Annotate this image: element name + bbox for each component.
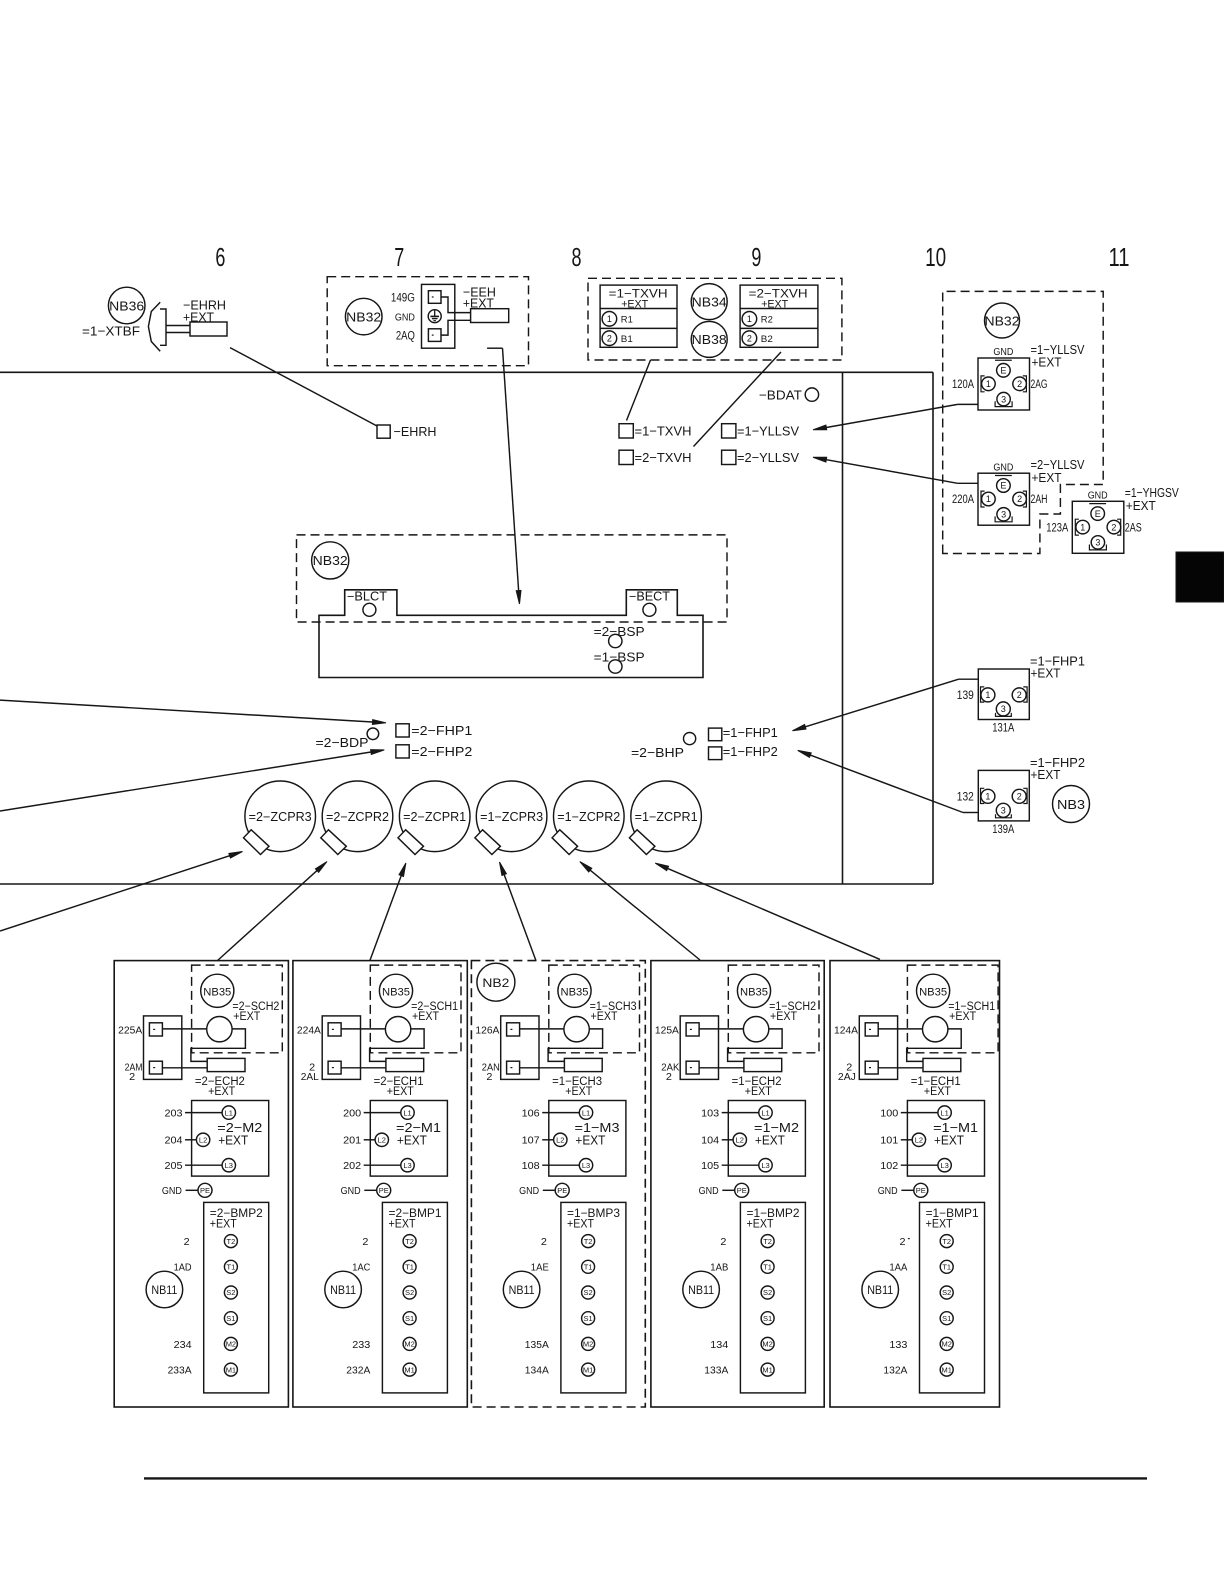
svg-text:+EXT: +EXT (208, 1086, 235, 1098)
pin T2 =2-BMP1 (403, 1235, 416, 1248)
motor box =1-M3 (549, 1101, 626, 1177)
connector 123A =1-YHGSV (1046, 485, 1179, 553)
compressor =2-ZCPR3 (244, 781, 316, 855)
svg-text:S2: S2 (226, 1288, 235, 1297)
wire GND to PE (341, 1183, 391, 1197)
svg-text:T1: T1 (584, 1263, 593, 1272)
svg-text:=1−TXVH: =1−TXVH (635, 423, 692, 438)
svg-text:GND: GND (699, 1186, 719, 1197)
sensor =2-BSP (594, 624, 645, 648)
svg-text:134A: 134A (525, 1366, 549, 1377)
terminal block 124A (859, 1016, 897, 1080)
svg-text:204: 204 (165, 1136, 183, 1147)
svg-text:1: 1 (747, 314, 752, 324)
svg-text:L2: L2 (556, 1136, 564, 1145)
svg-text:+EXT: +EXT (567, 1219, 594, 1231)
svg-text:E: E (1000, 481, 1006, 491)
wire feeder to coil (699, 1028, 743, 1030)
svg-text:=1−YLLSV: =1−YLLSV (737, 423, 799, 438)
wire 202 to L3 (343, 1161, 401, 1172)
wire -EHRH leader (230, 348, 377, 426)
label =1-SCH2 +EXT (769, 1001, 816, 1023)
motor box =2-M2 (192, 1101, 269, 1177)
wire feeder to ECH (878, 1067, 923, 1069)
dashed enclosure NB35 =1-SCH1 (907, 965, 998, 1053)
svg-text:1: 1 (985, 690, 990, 700)
svg-text:149G: 149G (391, 293, 415, 305)
svg-text:M2: M2 (762, 1340, 772, 1349)
svg-text:3: 3 (1001, 394, 1006, 404)
grid column number 9 (751, 244, 761, 272)
wire TXVH1 leader (627, 360, 651, 421)
svg-text:T2: T2 (227, 1237, 236, 1246)
svg-text:L1: L1 (940, 1108, 948, 1117)
terminal block 126A (501, 1016, 539, 1080)
heater terminal =1-ECH3 (564, 1058, 602, 1071)
svg-text:2: 2 (362, 1237, 368, 1248)
svg-text:224A: 224A (297, 1026, 321, 1037)
label =1-SCH1 +EXT (948, 1001, 995, 1023)
sensor -BLCT (347, 590, 387, 617)
svg-text:GND: GND (341, 1186, 361, 1197)
dashed enclosure NB32 col7 (327, 277, 528, 366)
sensor =2-BDP (316, 728, 379, 750)
svg-text:T1: T1 (942, 1263, 951, 1272)
wire feeder to coil (341, 1028, 385, 1030)
node NB32 col7 (345, 298, 382, 335)
node NB35 =2-SCH1 (379, 974, 412, 1007)
svg-text:1AE: 1AE (531, 1263, 549, 1274)
svg-text:+EXT: +EXT (463, 295, 494, 310)
sensor box =1-TXVH (600, 285, 677, 347)
label =1-XTBF (82, 323, 140, 338)
svg-text:+EXT: +EXT (397, 1132, 427, 1147)
label =2-SCH1 +EXT (411, 1001, 458, 1023)
wire 200 to L1 (343, 1108, 401, 1119)
svg-text:GND: GND (395, 312, 415, 324)
pin S2 =1-BMP1 (940, 1286, 953, 1299)
svg-text:NB35: NB35 (561, 986, 589, 998)
svg-text:2: 2 (1017, 792, 1022, 802)
svg-text:S1: S1 (763, 1314, 772, 1323)
wire 205 to L3 (165, 1161, 223, 1172)
protector box =2-BMP1 (382, 1202, 447, 1393)
svg-text:205: 205 (165, 1161, 183, 1172)
svg-text:S2: S2 (763, 1288, 772, 1297)
svg-text:1: 1 (986, 379, 991, 389)
svg-text:2: 2 (1017, 379, 1022, 389)
sensor -BDAT (759, 387, 819, 402)
wire to =2-ZCPR3 (0, 852, 243, 932)
svg-text:105: 105 (701, 1161, 719, 1172)
svg-text:103: 103 (701, 1108, 719, 1119)
svg-text:2: 2 (184, 1237, 190, 1248)
svg-text:+EXT: +EXT (1032, 355, 1062, 370)
motor box =1-M1 (907, 1101, 984, 1177)
wire GND to PE (162, 1183, 212, 1197)
label -EEH +EXT (463, 285, 496, 311)
dashed enclosure NB35 =2-SCH1 (370, 965, 461, 1053)
label =2-ECH1 +EXT (374, 1076, 424, 1098)
svg-text:7: 7 (394, 244, 404, 272)
pin T1 =1-BMP1 (940, 1260, 953, 1273)
wire feeder to coil (520, 1028, 564, 1030)
device square -EHRH (377, 424, 437, 439)
label -EHRH +EXT (183, 298, 226, 325)
label 2AM 2 (125, 1062, 143, 1083)
heater terminal =1-ECH1 (923, 1058, 961, 1071)
heater terminal -EHRH (166, 322, 227, 336)
svg-text:+EXT: +EXT (761, 299, 788, 311)
svg-text:120A: 120A (952, 379, 974, 391)
svg-text:T2: T2 (405, 1237, 414, 1246)
svg-text:133: 133 (889, 1340, 907, 1351)
node NB36 (108, 287, 145, 324)
svg-text:+EXT: +EXT (210, 1219, 237, 1231)
contactor coil =2-SCH2 (207, 1016, 232, 1041)
svg-text:2: 2 (607, 333, 612, 343)
pin label 1AE (531, 1263, 549, 1274)
footer rule (144, 1477, 1147, 1479)
wire module3 to =1-ZCPR3 (500, 862, 537, 961)
svg-text:+EXT: +EXT (387, 1086, 414, 1098)
pin label GND col7 (395, 312, 415, 324)
wire module2 to =2-ZCPR1 (370, 863, 406, 960)
svg-text:+EXT: +EXT (183, 309, 214, 324)
pin M2 =2-BMP1 (403, 1337, 416, 1350)
protector box =2-BMP2 (204, 1202, 269, 1393)
svg-text:135A: 135A (525, 1340, 549, 1351)
svg-text:L3: L3 (582, 1161, 590, 1170)
svg-text:+EXT: +EXT (591, 1011, 618, 1023)
svg-text:NB11: NB11 (867, 1285, 893, 1297)
svg-text:2AH: 2AH (1031, 494, 1048, 506)
ground symbol GND (428, 310, 441, 323)
svg-text:M1: M1 (762, 1365, 772, 1374)
pin label 135A (525, 1340, 549, 1351)
svg-text:+EXT: +EXT (747, 1219, 774, 1231)
svg-text:+EXT: +EXT (389, 1219, 416, 1231)
svg-text:NB11: NB11 (151, 1285, 177, 1297)
svg-text:T1: T1 (405, 1263, 414, 1272)
svg-text:+EXT: +EXT (621, 299, 648, 311)
svg-text:1AB: 1AB (710, 1263, 728, 1274)
svg-text:2: 2 (720, 1237, 726, 1248)
svg-text:2AG: 2AG (1031, 379, 1048, 391)
dashed enclosure NB35 =1-SCH3 (549, 965, 640, 1053)
svg-text:=2−BDP: =2−BDP (316, 735, 369, 750)
pin M1 =2-BMP2 (224, 1363, 237, 1376)
svg-text:L1: L1 (225, 1108, 233, 1117)
compressor =1-ZCPR1 (629, 781, 701, 855)
pin M1 =1-BMP3 (582, 1363, 595, 1376)
pin S2 =2-BMP1 (403, 1286, 416, 1299)
wire to =2-FHP1 (0, 700, 386, 724)
svg-text:L3: L3 (403, 1161, 411, 1170)
svg-text:101: 101 (880, 1136, 898, 1147)
svg-text:3: 3 (1001, 806, 1006, 816)
svg-text:233A: 233A (168, 1366, 192, 1377)
svg-text:NB34: NB34 (692, 294, 727, 309)
pin label 134 (710, 1340, 728, 1351)
grid column number 8 (572, 244, 582, 272)
device square =2-FHP2 (396, 744, 472, 759)
wire feeder to coil (162, 1028, 206, 1030)
pin label 232A (346, 1366, 370, 1377)
dashed enclosure TXVH (588, 278, 842, 360)
svg-text:2: 2 (666, 1072, 672, 1083)
label 2 2AL (301, 1062, 319, 1083)
svg-text:1: 1 (607, 314, 612, 324)
wire 100 to L1 (880, 1108, 938, 1119)
pin M2 =1-BMP2 (761, 1337, 774, 1350)
node NB11 =2-SCH1 (325, 1271, 362, 1308)
svg-text:M1: M1 (583, 1365, 593, 1374)
node NB35 =1-SCH3 (558, 974, 591, 1007)
wire 104 to L2 (701, 1136, 733, 1147)
svg-text:B2: B2 (761, 334, 773, 345)
wire GND to PE (699, 1183, 749, 1197)
svg-text:139A: 139A (992, 824, 1014, 836)
pin S1 =2-BMP1 (403, 1312, 416, 1325)
svg-text:1AD: 1AD (174, 1263, 192, 1274)
svg-text:GND: GND (519, 1186, 539, 1197)
svg-text:126A: 126A (475, 1026, 499, 1037)
wire 101 to L2 (880, 1136, 912, 1147)
contactor coil =1-SCH3 (564, 1016, 589, 1041)
node NB2 (477, 963, 515, 1001)
svg-text:=2−ZCPR2: =2−ZCPR2 (326, 810, 389, 824)
pin T1 =2-BMP1 (403, 1260, 416, 1273)
svg-text:NB35: NB35 (203, 986, 231, 998)
dashed enclosure NB35 =1-SCH2 (728, 965, 819, 1053)
wire feeder to ECH (699, 1067, 744, 1069)
pin T2 =1-BMP3 (582, 1235, 595, 1248)
svg-text:−EHRH: −EHRH (394, 424, 437, 439)
pin M2 =2-BMP2 (224, 1337, 237, 1350)
svg-text:1: 1 (986, 494, 991, 504)
svg-text:NB35: NB35 (919, 986, 947, 998)
heater terminal =1-ECH2 (744, 1058, 782, 1071)
node NB3 (1053, 786, 1090, 823)
svg-text:1AA: 1AA (889, 1263, 907, 1274)
svg-text:T1: T1 (227, 1263, 236, 1272)
svg-text:=1−ZCPR2: =1−ZCPR2 (557, 810, 620, 824)
protector box =1-BMP1 (920, 1202, 985, 1393)
svg-text:+EXT: +EXT (218, 1132, 248, 1147)
svg-text:GND: GND (993, 462, 1013, 473)
connector 139/131A =1-FHP1 (957, 654, 1085, 735)
svg-text:=2−ZCPR3: =2−ZCPR3 (249, 810, 312, 824)
svg-text:NB38: NB38 (692, 332, 727, 347)
pin M1 =1-BMP1 (940, 1363, 953, 1376)
svg-text:R2: R2 (761, 315, 773, 326)
pin S1 =1-BMP3 (582, 1312, 595, 1325)
svg-text:+EXT: +EXT (1126, 498, 1156, 513)
svg-text:1: 1 (1080, 522, 1085, 532)
svg-text:+EXT: +EXT (949, 1011, 976, 1023)
node NB34 (691, 284, 727, 320)
svg-text:L2: L2 (199, 1136, 207, 1145)
pin label 133 (889, 1340, 907, 1351)
svg-text:=2−FHP2: =2−FHP2 (411, 744, 472, 759)
svg-text:PE: PE (916, 1186, 926, 1195)
svg-text:NB36: NB36 (109, 298, 144, 313)
label 2 2AJ (838, 1062, 910, 1238)
pin label 233A (168, 1366, 192, 1377)
wire module1 to =2-ZCPR2 (217, 862, 327, 962)
wire 120A to =1-YLLSV (813, 404, 978, 429)
svg-text:=2−ZCPR1: =2−ZCPR1 (403, 810, 466, 824)
svg-text:+EXT: +EXT (755, 1132, 785, 1147)
pin label 2 (184, 1237, 190, 1248)
pin T2 =1-BMP2 (761, 1235, 774, 1248)
svg-text:225A: 225A (118, 1026, 142, 1037)
svg-text:1: 1 (985, 792, 990, 802)
wire 105 to L3 (701, 1161, 759, 1172)
wire feeder to coil (878, 1028, 922, 1030)
heater terminal =2-ECH1 (386, 1058, 424, 1071)
label =2-ECH2 +EXT (195, 1076, 245, 1098)
label 2AK 2 (661, 1062, 679, 1083)
svg-text:M1: M1 (941, 1365, 951, 1374)
sensor -BECT (629, 590, 670, 617)
svg-text:124A: 124A (834, 1026, 858, 1037)
svg-text:106: 106 (522, 1108, 540, 1119)
svg-text:104: 104 (701, 1136, 719, 1147)
svg-text:+EXT: +EXT (924, 1086, 951, 1098)
heater terminal -EEH (471, 309, 509, 323)
device square =2-TXVH (619, 450, 692, 465)
svg-text:=1−FHP1: =1−FHP1 (723, 725, 778, 740)
svg-text:107: 107 (522, 1136, 540, 1147)
svg-text:=2−FHP1: =2−FHP1 (411, 723, 472, 738)
svg-text:M1: M1 (404, 1365, 414, 1374)
device square =1-TXVH (619, 423, 692, 438)
svg-text:232A: 232A (346, 1366, 370, 1377)
protector box =1-BMP2 (740, 1202, 805, 1393)
svg-text:NB11: NB11 (330, 1285, 356, 1297)
label =1-ECH3 +EXT (552, 1076, 602, 1098)
wire 131A to =1-FHP1 (792, 679, 978, 731)
svg-text:T2: T2 (942, 1237, 951, 1246)
compressor =2-ZCPR2 (321, 781, 393, 855)
svg-text:M1: M1 (226, 1365, 236, 1374)
svg-text:2AL: 2AL (301, 1072, 319, 1083)
svg-text:+EXT: +EXT (770, 1011, 797, 1023)
svg-text:S2: S2 (584, 1288, 593, 1297)
pin label 233 (352, 1340, 370, 1351)
wire 220A to =2-YLLSV (813, 457, 978, 483)
svg-text:L2: L2 (736, 1136, 744, 1145)
label =1-ECH1 +EXT (911, 1076, 961, 1098)
motor box =1-M2 (728, 1101, 805, 1177)
svg-text:NB11: NB11 (688, 1285, 714, 1297)
wire coil to ECH (728, 1029, 783, 1062)
svg-text:6: 6 (215, 244, 225, 272)
pin label 1AC (352, 1263, 370, 1274)
svg-text:T2: T2 (763, 1237, 772, 1246)
connector 132/139A =1-FHP2 (957, 755, 1085, 836)
pin label 2AQ (396, 330, 415, 342)
wire 102 to L3 (880, 1161, 938, 1172)
svg-text:3: 3 (1001, 704, 1006, 714)
svg-text:NB32: NB32 (313, 553, 348, 568)
svg-text:M2: M2 (404, 1340, 414, 1349)
label =2-SCH2 +EXT (232, 1001, 279, 1023)
compressor =1-ZCPR2 (552, 781, 624, 855)
cabinet inner wall (842, 372, 844, 884)
node NB32 middle (312, 542, 349, 579)
sensor =2-BHP (631, 733, 696, 761)
wire feeder to ECH (520, 1067, 565, 1069)
compressor =1-ZCPR3 (475, 781, 547, 855)
pin S2 =1-BMP3 (582, 1286, 595, 1299)
svg-text:−BECT: −BECT (629, 590, 670, 604)
pin label 2 (720, 1237, 726, 1248)
svg-text:NB2: NB2 (482, 976, 509, 990)
pin label 132A (883, 1366, 907, 1377)
device square =1-FHP2 (709, 744, 778, 760)
svg-text:108: 108 (522, 1161, 540, 1172)
svg-text:S1: S1 (226, 1314, 235, 1323)
svg-text:M2: M2 (941, 1340, 951, 1349)
fuse clip bracket =1-XTBF (148, 302, 166, 351)
svg-text:NB11: NB11 (509, 1285, 535, 1297)
pin M1 =1-BMP2 (761, 1363, 774, 1376)
svg-text:L1: L1 (582, 1108, 590, 1117)
svg-text:+EXT: +EXT (926, 1219, 953, 1231)
svg-text:S1: S1 (584, 1314, 593, 1323)
pin T1 =2-BMP2 (224, 1260, 237, 1273)
svg-text:S1: S1 (405, 1314, 414, 1323)
label 224A (297, 1026, 321, 1037)
base plate assembly (319, 590, 703, 678)
svg-text:2: 2 (900, 1237, 906, 1248)
svg-text:=1−ZCPR3: =1−ZCPR3 (480, 810, 543, 824)
node NB11 =1-SCH3 (503, 1271, 540, 1308)
wire 103 to L1 (701, 1108, 759, 1119)
svg-text:+EXT: +EXT (565, 1086, 592, 1098)
pin M1 =2-BMP1 (403, 1363, 416, 1376)
svg-text:L2: L2 (915, 1136, 923, 1145)
pin label 1AB (710, 1263, 728, 1274)
device square =1-FHP1 (709, 725, 778, 741)
dashed enclosure NB35 =2-SCH2 (192, 965, 283, 1053)
connector 120A =1-YLLSV (952, 342, 1085, 410)
dashed enclosure NB32 YLLSV (943, 291, 1103, 553)
node NB11 =1-SCH1 (862, 1271, 899, 1308)
svg-text:T2: T2 (584, 1237, 593, 1246)
node NB35 =2-SCH2 (201, 974, 234, 1007)
svg-text:220A: 220A (952, 494, 974, 506)
pin S2 =1-BMP2 (761, 1286, 774, 1299)
pin T2 =2-BMP2 (224, 1235, 237, 1248)
wire GND to PE (519, 1183, 569, 1197)
svg-text:+EXT: +EXT (1031, 666, 1061, 681)
heater terminal =2-ECH2 (207, 1058, 245, 1071)
grid column number 6 (215, 244, 225, 272)
label 126A (475, 1026, 499, 1037)
wire coil to ECH (191, 1029, 246, 1062)
pin S1 =2-BMP2 (224, 1312, 237, 1325)
svg-text:T1: T1 (763, 1263, 772, 1272)
svg-text:+EXT: +EXT (575, 1132, 605, 1147)
svg-text:NB32: NB32 (346, 309, 381, 324)
svg-text:2: 2 (1017, 690, 1022, 700)
svg-text:E: E (1095, 509, 1101, 519)
svg-text:+EXT: +EXT (412, 1011, 439, 1023)
